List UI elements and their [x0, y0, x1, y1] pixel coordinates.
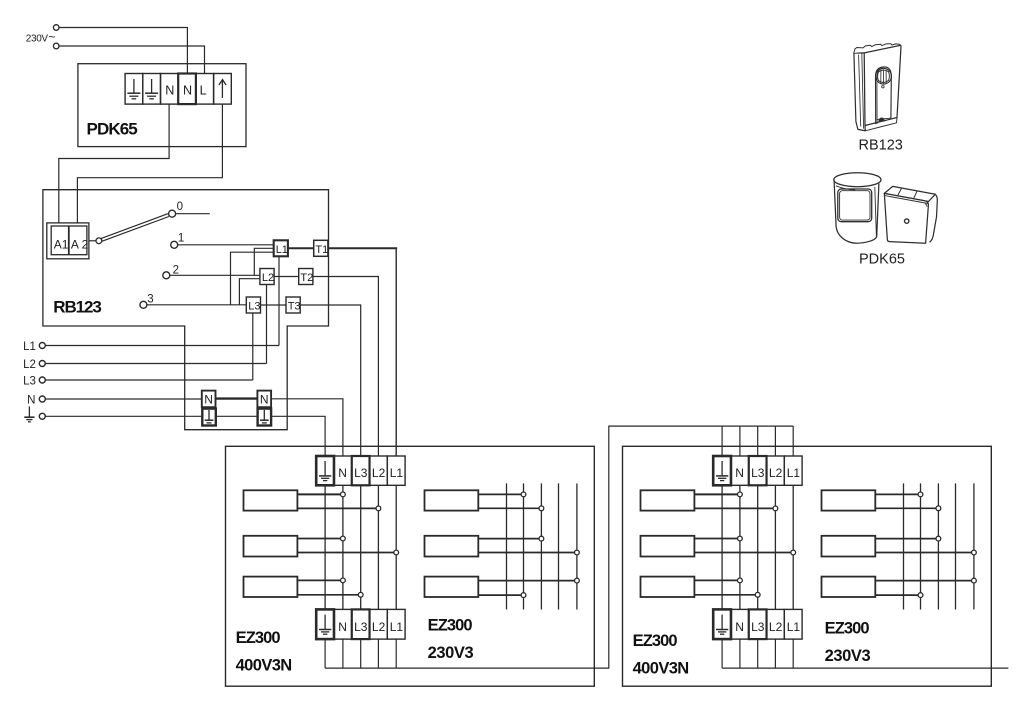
PDK65 junction box front face [884, 193, 928, 243]
wire contact 0 stub [176, 213, 210, 215]
svg-text:A 2: A 2 [71, 238, 89, 252]
svg-text:L1: L1 [787, 466, 801, 480]
svg-text:3: 3 [147, 293, 153, 305]
wire drop L1 to bus [395, 639, 397, 668]
wire link contact3 row to L1 lower input [231, 252, 274, 305]
wire L1 feed from supply [278, 256, 280, 345]
EZ300-2 terminal strip bottom cell L3 [749, 609, 767, 639]
EZ300-2 wire drop N to bus [739, 639, 741, 668]
EZ300-2 heating element 230V group 3 [822, 577, 876, 597]
switch pivot [96, 238, 102, 244]
svg-text:T3: T3 [288, 301, 301, 313]
EZ300-2 heating element 400V group 2 [641, 536, 695, 557]
wire vertical L2 between strips [377, 485, 379, 609]
PDK65 junction box right side [930, 194, 938, 242]
wire PDK65 N out to RB123 A1 [59, 104, 169, 223]
terminal strip PDK65 cell earth 2 [143, 74, 161, 105]
EZ300-2 terminal strip top cell L3 [749, 456, 767, 485]
EZ300-2 wire element 230V-3 top [875, 580, 971, 582]
EZ300-2 junction 230V-1 bottom [936, 506, 941, 511]
terminal strip top cell L3 [352, 456, 370, 485]
svg-text:L2: L2 [372, 620, 386, 634]
EZ300-2 junction element1 N [738, 492, 743, 497]
wire element 230V-3 bottom [478, 594, 521, 596]
EZ300-2 heating element 400V group 1 [641, 490, 695, 510]
node supply L3 [39, 377, 45, 383]
wire PDK65 arrow out to RB123 A2 [77, 104, 222, 223]
contact 1 [171, 241, 178, 248]
arrow symbol in PDK65 cell 6 [219, 80, 226, 98]
contact box L3 [246, 297, 260, 313]
svg-text:PDK65: PDK65 [859, 252, 905, 268]
wire coil to switch pivot [89, 240, 96, 242]
svg-text:L1: L1 [390, 620, 404, 634]
EZ300-2 junction 230V-1 top [918, 492, 923, 497]
svg-text:230V: 230V [26, 33, 49, 44]
product image PDK65 sensor set [834, 173, 938, 244]
terminal strip bottom cell L2 [370, 609, 388, 639]
wire element2 to L1 [297, 552, 393, 554]
wire element 230V-3 top [478, 580, 574, 582]
heating element 400V group 2 [244, 536, 298, 557]
terminal strip top cell L2 [370, 456, 388, 485]
EZ300-2 wire vertical 230V line c [937, 483, 939, 609]
junction 230V-2 bottom [575, 550, 580, 555]
svg-text:N: N [338, 620, 347, 634]
terminal strip top cell N [334, 456, 352, 485]
wire L2 feed from supply [266, 285, 268, 364]
switch arm (double line) [102, 217, 169, 242]
svg-text:T2: T2 [300, 272, 313, 284]
heating element 230V group 2 [425, 536, 479, 557]
EZ300-2 junction element3 N [738, 578, 743, 583]
PDK65 junction box top face [884, 186, 935, 201]
wire drop L2 to bus [377, 639, 379, 668]
EZ300-2 wire vertical L3 between strips [757, 485, 759, 609]
svg-text:400V3N: 400V3N [236, 657, 292, 675]
junction 230V-1 bottom [539, 506, 544, 511]
EZ300-2 junction element1 L2 [773, 506, 778, 511]
junction element2 L1 [394, 550, 399, 555]
wire bus EZ300-1 bottom to EZ300-2 top feed [325, 426, 793, 668]
node 230V supply terminal lower [53, 43, 59, 49]
svg-text:L1: L1 [787, 620, 801, 634]
EZ300-2 wire vertical L1 between strips [792, 485, 794, 609]
wire element1 to L2 [297, 507, 376, 509]
terminal earth box 1 [202, 409, 216, 426]
RB123 top edge with clips [854, 44, 901, 53]
wire vertical 230V line b [523, 483, 525, 609]
svg-text:0: 0 [177, 201, 183, 213]
svg-text:L3: L3 [354, 620, 368, 634]
heating element 400V group 3 [244, 577, 298, 597]
wire supply PE to earth terminal [45, 415, 202, 417]
junction 230V-3 top [575, 578, 580, 583]
svg-text:L2: L2 [262, 272, 274, 284]
wire 230V lower to PDK65 terminal L [59, 46, 205, 74]
wire L2-T2 [274, 276, 299, 278]
wire contact 1 to L1 [178, 244, 274, 246]
svg-text:A1: A1 [54, 238, 69, 252]
svg-text:L1: L1 [390, 466, 404, 480]
contact box L1 [274, 240, 288, 256]
junction element1 L2 [376, 506, 381, 511]
terminal strip PDK65 cell N out [161, 74, 179, 105]
wire drop N to bus [342, 639, 344, 668]
heater unit EZ300 number 2 [623, 446, 992, 686]
svg-text:L3: L3 [248, 301, 260, 313]
wire L1-T1 [288, 247, 314, 249]
EZ300-2 wire element3 to L3 [694, 594, 755, 596]
svg-text:L3: L3 [751, 466, 765, 480]
EZ300-2 ground symbol top strip [716, 461, 728, 481]
EZ300-2 terminal strip top cell L1 [784, 456, 802, 485]
svg-text:L2: L2 [372, 466, 386, 480]
coil divider [68, 226, 70, 255]
wire element 230V-1 bottom [478, 507, 539, 509]
svg-text:L1: L1 [276, 244, 288, 256]
EZ300-2 ground symbol bottom strip [716, 615, 728, 635]
terminal strip top cell L1 [387, 456, 405, 485]
ground symbol bottom strip [319, 615, 331, 635]
EZ300-2 wire element 230V-1 top [875, 493, 918, 495]
wire supply L3 [45, 379, 253, 381]
EZ300-2 wire vertical 230V line e [973, 483, 975, 609]
contact box L2 [260, 269, 274, 285]
wire feed EZ300-2 L2 [774, 426, 776, 456]
terminal strip PDK65 cell L in [196, 74, 214, 105]
svg-text:N: N [204, 393, 213, 407]
EZ300-2 junction 230V-2 bottom [972, 550, 977, 555]
EZ300-2 junction element3 L3 [755, 592, 760, 597]
wire PE out to EZ300 [271, 416, 325, 456]
EZ300-2 wire element2 to N [694, 538, 737, 540]
EZ300-2 junction 230V-3 top [972, 578, 977, 583]
wire T1 output to EZ300 L1 [328, 247, 397, 249]
junction element1 N [341, 492, 346, 497]
contact box T2 [299, 269, 313, 285]
node supply PE [39, 413, 45, 419]
EZ300-2 wire drop L2 to bus [774, 639, 776, 668]
wire vertical 230V line d [558, 483, 560, 609]
svg-text:RB123: RB123 [53, 298, 101, 317]
EZ300-2 terminal strip bottom cell L1 [784, 609, 802, 639]
RB123 bottom screw notch [878, 117, 884, 122]
svg-text:L2: L2 [23, 359, 36, 371]
terminal earth box 2 [258, 409, 272, 426]
wire bus EZ300-2 bottom continuation [722, 667, 1008, 669]
EZ300-2 wire vertical 230V line b [920, 483, 922, 609]
svg-text:RB123: RB123 [859, 138, 903, 154]
svg-text:EZ300: EZ300 [428, 617, 473, 635]
svg-text:N: N [260, 393, 269, 407]
svg-text:L3: L3 [751, 620, 765, 634]
EZ300-2 wire drop earth to bus [721, 639, 723, 668]
contact 2 [163, 272, 170, 279]
junction 230V-2 top [539, 536, 544, 541]
svg-text:230V3: 230V3 [428, 644, 474, 662]
terminal strip bottom cell L3 [352, 609, 370, 639]
EZ300-2 junction 230V-3 bottom [918, 593, 923, 598]
wire feed EZ300-2 L1 [792, 426, 794, 456]
RB123 arch cover [876, 67, 892, 124]
svg-text:N: N [735, 620, 744, 634]
terminal strip top cell earth [316, 456, 334, 485]
wire element 230V-1 top [478, 493, 521, 495]
svg-text:PDK65: PDK65 [87, 120, 138, 139]
ground symbol in PDK65 cell 2 [145, 79, 158, 99]
EZ300-2 wire vertical 230V line a [903, 483, 905, 609]
wire 230V upper to PDK65 terminal N [59, 28, 187, 74]
svg-text:~: ~ [48, 30, 55, 44]
wire vertical L3 between strips [360, 485, 362, 609]
wire T3 output to EZ300 L3 [300, 305, 361, 456]
coil A1 A2 inner box [51, 226, 87, 255]
ground symbol top strip [319, 461, 331, 481]
RB123 bottom band [858, 118, 897, 131]
box EZ300-1 [226, 446, 595, 686]
EZ300-2 wire element 230V-2 top [875, 538, 936, 540]
svg-text:T1: T1 [315, 244, 328, 256]
RB123 side face [854, 53, 865, 131]
svg-text:L1: L1 [23, 341, 36, 353]
RB123 front face [864, 45, 901, 125]
heating element 400V group 1 [244, 490, 298, 510]
wire N out to EZ300 [271, 399, 343, 456]
EZ300-2 wire element1 to N [694, 493, 737, 495]
svg-text:230V3: 230V3 [825, 647, 871, 665]
EZ300-2 wire element 230V-3 bottom [875, 594, 918, 596]
wire element 230V-2 bottom [478, 552, 574, 554]
svg-text:N: N [165, 83, 174, 97]
wire vertical 230V line a [506, 483, 508, 609]
svg-text:N: N [735, 466, 744, 480]
coil A1 A2 outer box [47, 223, 89, 259]
EZ300-2 wire vertical L2 between strips [774, 485, 776, 609]
EZ300-2 heating element 230V group 2 [822, 536, 876, 557]
terminal strip PDK65 cell earth 1 [125, 74, 143, 105]
EZ300-2 wire element1 to L2 [694, 507, 773, 509]
junction 230V-1 top [521, 492, 526, 497]
svg-text:N: N [27, 395, 35, 407]
wire element3 to L3 [297, 594, 358, 596]
wire vertical L1 between strips [395, 485, 397, 609]
wire link contact2 row to L1 lower input [254, 248, 273, 275]
EZ300-2 wire vertical 230V line d [955, 483, 957, 609]
relay RB123 box outline [43, 190, 329, 430]
device PDK65 box [78, 64, 246, 147]
wire vertical N between strips [342, 485, 344, 609]
node supply L2 [39, 361, 45, 367]
svg-text:EZ300: EZ300 [825, 620, 870, 638]
node supply N [39, 396, 45, 402]
EZ300-2 wire element3 to N [694, 579, 737, 581]
wire PE link [216, 415, 258, 417]
PDK65 sensor top ellipse [834, 173, 881, 187]
EZ300-2 heating element 230V group 1 [822, 490, 876, 510]
ground symbol supply PE [24, 407, 34, 422]
svg-text:N: N [183, 83, 192, 97]
EZ300-2 wire element 230V-1 bottom [875, 507, 936, 509]
terminal strip bottom cell N [334, 609, 352, 639]
heating element 230V group 3 [425, 577, 479, 597]
wire vertical 230V line c [540, 483, 542, 609]
EZ300-2 terminal strip bottom cell earth [713, 609, 731, 639]
wire contact 2 to L2 [170, 274, 260, 276]
svg-text:N: N [338, 466, 347, 480]
EZ300-2 wire drop L3 to bus [757, 639, 759, 668]
wire T2 output to EZ300 L2 [313, 277, 379, 457]
wire element3 to N [297, 579, 340, 581]
heating element 230V group 1 [425, 490, 479, 510]
wire vertical earth between strips [324, 485, 326, 609]
wire feed EZ300-2 L3 [757, 426, 759, 456]
svg-text:EZ300: EZ300 [633, 632, 678, 650]
svg-text:L3: L3 [23, 376, 36, 388]
ground symbol in PDK65 cell 1 [127, 79, 140, 99]
heater unit EZ300 number 1 [226, 446, 595, 686]
wire vertical 230V line e [576, 483, 578, 609]
terminal N box 2 [257, 391, 271, 408]
node supply L1 [39, 343, 45, 349]
junction element2 N [341, 536, 346, 541]
EZ300-2 wire vertical N between strips [739, 485, 741, 609]
EZ300-2 wire drop L1 to bus [792, 639, 794, 668]
wire supply L1 [45, 345, 279, 347]
EZ300-2 junction element2 N [738, 536, 743, 541]
junction element3 L3 [358, 592, 363, 597]
wire drop earth to bus [324, 639, 326, 668]
terminal strip bottom cell L1 [387, 609, 405, 639]
EZ300-2 heating element 400V group 3 [641, 577, 695, 597]
EZ300-2 wire vertical earth between strips [721, 485, 723, 609]
wire feed EZ300-2 earth [721, 426, 723, 456]
terminal N box 1 [202, 391, 216, 408]
wire element2 to N [297, 538, 340, 540]
svg-text:400V3N: 400V3N [633, 660, 689, 678]
wire L3-T3 [261, 304, 287, 306]
EZ300-2 junction 230V-2 top [936, 536, 941, 541]
contact 0 [169, 210, 176, 217]
wire drop L3 to bus [360, 639, 362, 668]
EZ300-2 wire element2 to L1 [694, 552, 790, 554]
junction 230V-3 bottom [521, 593, 526, 598]
contact box T3 [286, 297, 300, 313]
svg-text:EZ300: EZ300 [236, 629, 281, 647]
wire link contact3 row to L2 lower input [239, 279, 260, 305]
wire supply L2 [45, 363, 266, 365]
wire supply N to N terminal [45, 398, 202, 400]
EZ300-2 terminal strip bottom cell N [731, 609, 749, 639]
box EZ300-2 [623, 446, 992, 686]
EZ300-2 junction element2 L1 [791, 550, 796, 555]
wire L3 feed from supply [252, 313, 254, 380]
contact box T1 [314, 240, 328, 256]
PDK65 junction box center hole [905, 219, 909, 223]
terminal strip PDK65 cell N in [178, 74, 196, 105]
EZ300-2 terminal strip top cell N [731, 456, 749, 485]
wire feed EZ300-2 N [739, 426, 741, 456]
product image RB123 timer [854, 44, 901, 131]
terminal strip bottom cell earth [316, 609, 334, 639]
svg-text:1: 1 [178, 233, 184, 245]
wire element1 to N [297, 493, 340, 495]
contact 3 [140, 301, 147, 308]
svg-text:L3: L3 [354, 466, 368, 480]
junction element3 N [341, 578, 346, 583]
svg-text:L2: L2 [769, 620, 783, 634]
wire element 230V-2 top [478, 538, 539, 540]
terminal strip PDK65 cell arrow out [214, 74, 232, 105]
EZ300-2 terminal strip bottom cell L2 [767, 609, 785, 639]
EZ300-2 wire element 230V-2 bottom [875, 552, 971, 554]
RB123 dial [876, 68, 892, 84]
svg-text:L: L [200, 83, 207, 97]
node 230V supply terminal upper [53, 25, 59, 31]
wire contact 3 to L3 [147, 304, 246, 306]
PDK65 sensor window [838, 189, 872, 222]
PDK65 motion sensor body [834, 179, 879, 244]
wire N link thick [216, 397, 258, 399]
EZ300-2 terminal strip top cell earth [713, 456, 731, 485]
EZ300-2 terminal strip top cell L2 [767, 456, 785, 485]
svg-text:L2: L2 [769, 466, 783, 480]
